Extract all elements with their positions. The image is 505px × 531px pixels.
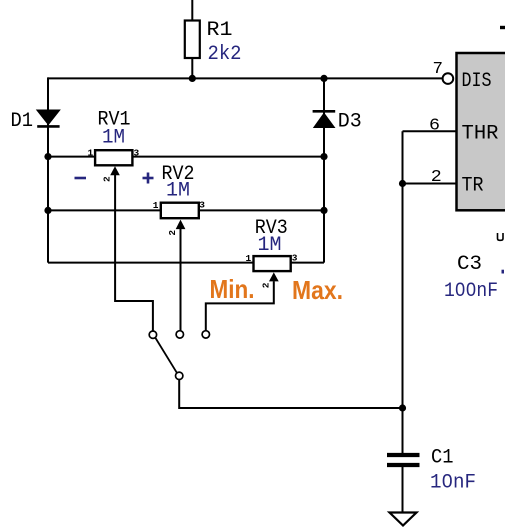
node: left rail / RV1 row <box>44 153 51 160</box>
wire: RV3 wiper to switch contact 3 <box>206 281 274 331</box>
wire: RV3 row <box>48 262 324 264</box>
wire: THR stub <box>403 130 457 132</box>
switch SW1 lever <box>156 338 177 373</box>
svg-text:6: 6 <box>429 117 440 136</box>
node: TR junction <box>399 180 406 187</box>
diode D3 <box>313 111 336 127</box>
svg-text:TR: TR <box>462 175 484 198</box>
svg-text:3: 3 <box>292 253 298 264</box>
svg-text:Min.: Min. <box>210 274 255 304</box>
potentiometer RV1 <box>95 150 132 175</box>
svg-text:2: 2 <box>431 168 442 187</box>
svg-text:D1: D1 <box>11 110 34 133</box>
wire: right rail <box>323 77 325 262</box>
svg-text:1M: 1M <box>166 180 190 203</box>
svg-text:100nF: 100nF <box>444 280 498 303</box>
switch SW1 contact 2 <box>176 331 183 338</box>
svg-text:1: 1 <box>88 148 94 159</box>
op-amp U1 555 timer body <box>457 53 505 210</box>
plus polarity mark <box>143 173 154 184</box>
wire: top horizontal rail <box>48 77 443 79</box>
svg-text:D3: D3 <box>338 111 362 134</box>
svg-text:DIS: DIS <box>462 70 492 93</box>
cropped mark top right <box>500 26 505 29</box>
wire: RV2 wiper to switch contact 2 <box>180 229 182 331</box>
node: right rail / RV2 row <box>320 207 327 214</box>
wire: RV1 row <box>48 156 324 158</box>
wire: C1 to ground <box>402 467 404 513</box>
svg-text:7: 7 <box>433 60 444 79</box>
switch SW1 contact 1 <box>149 331 156 338</box>
wire: THR/TR vertical rail <box>402 131 404 453</box>
wire: RV2 row <box>48 209 324 211</box>
pin 7 inversion bubble <box>443 73 454 84</box>
switch SW1 contact 3 <box>202 331 209 338</box>
svg-text:2: 2 <box>167 230 178 236</box>
cropped blue mark right edge <box>502 270 505 274</box>
wire: TR stub <box>403 183 457 185</box>
potentiometer RV2 <box>161 203 199 229</box>
svg-text:C3: C3 <box>457 253 482 276</box>
wire: left rail <box>47 77 49 262</box>
node: right rail / RV1 row <box>320 153 327 160</box>
node: junction above D3 <box>320 75 327 82</box>
wire: RV1 wiper to switch contact 1 <box>115 175 153 331</box>
node: switch output / C1 junction <box>399 404 406 411</box>
ground <box>390 513 417 526</box>
capacitor C1 <box>387 455 420 465</box>
svg-text:3: 3 <box>199 200 205 211</box>
node: left rail / RV2 row <box>44 207 51 214</box>
wire: R1 bottom to top rail <box>191 58 193 78</box>
svg-text:1: 1 <box>153 200 159 211</box>
svg-text:R1: R1 <box>207 19 233 42</box>
resistor R1 <box>185 21 200 59</box>
switch SW1 pole <box>176 372 183 379</box>
svg-text:2: 2 <box>260 282 271 288</box>
svg-text:2: 2 <box>102 176 113 182</box>
svg-text:3: 3 <box>134 148 140 159</box>
wire: top feed into R1 <box>191 0 193 21</box>
svg-text:1M: 1M <box>258 234 282 257</box>
svg-text:C1: C1 <box>431 447 454 470</box>
svg-text:1M: 1M <box>102 126 125 149</box>
svg-text:1: 1 <box>246 253 252 264</box>
cropped mark right edge <box>498 233 504 240</box>
svg-text:2k2: 2k2 <box>208 43 242 66</box>
svg-text:THR: THR <box>462 123 499 146</box>
minus polarity mark <box>75 177 87 180</box>
svg-text:10nF: 10nF <box>430 472 476 495</box>
diode D1 <box>37 110 60 126</box>
node: junction under R1 <box>189 75 196 82</box>
wire: switch pole to C1 node <box>179 380 402 409</box>
potentiometer RV3 <box>254 256 291 281</box>
svg-text:Max.: Max. <box>292 275 343 305</box>
